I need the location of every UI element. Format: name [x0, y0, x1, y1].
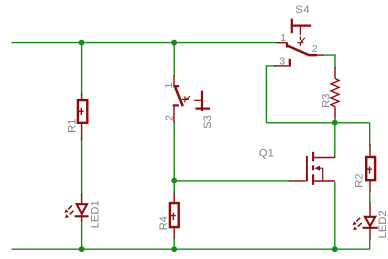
- junction node bottom-middle: [171, 246, 177, 252]
- resistor R1: [67, 94, 88, 139]
- svg-text:R3: R3: [321, 94, 333, 108]
- wire R1 to LED1: [81, 139, 83, 194]
- svg-text:LED2: LED2: [377, 210, 388, 238]
- junction node middle net: [332, 120, 338, 126]
- resistor R2: [354, 145, 376, 191]
- svg-text:1: 1: [280, 32, 286, 44]
- pin-net transition dots: [81, 42, 371, 239]
- wire S3 to R4: [173, 122, 175, 192]
- junction node bottom-right: [332, 246, 338, 252]
- svg-text:R1: R1: [67, 119, 79, 133]
- wire R1 column top: [81, 43, 83, 95]
- svg-text:1: 1: [163, 83, 175, 89]
- svg-text:S3: S3: [202, 115, 214, 129]
- switch S4: [275, 4, 323, 68]
- wire gate net: [174, 180, 290, 182]
- wire R4 to bottom: [173, 238, 175, 249]
- wire R3 to Q1 drain: [334, 123, 336, 157]
- LED LED1: [64, 194, 101, 228]
- wire bottom net: [12, 248, 370, 250]
- LED LED2: [353, 203, 388, 239]
- junction node gate tee: [171, 178, 177, 184]
- switch S3: [163, 76, 214, 129]
- wire middle net horizontal: [266, 122, 369, 124]
- junction node bottom-left: [79, 246, 85, 252]
- resistor R3: [321, 67, 339, 119]
- wire R2 to LED2: [369, 191, 371, 203]
- wire middle to R2: [369, 123, 371, 145]
- wire Q1 source to bottom: [334, 182, 336, 249]
- svg-text:3: 3: [279, 55, 285, 67]
- svg-text:2: 2: [312, 43, 318, 55]
- svg-text:R4: R4: [158, 216, 170, 230]
- wire S3 column top: [173, 43, 175, 76]
- resistor R4: [158, 192, 179, 238]
- wire LED2 to bottom: [369, 239, 371, 250]
- svg-text:Q1: Q1: [259, 147, 274, 159]
- svg-text:S4: S4: [295, 4, 310, 16]
- svg-text:2: 2: [164, 115, 176, 121]
- transistor Q1: [259, 147, 335, 185]
- junction node top-left: [79, 40, 85, 46]
- svg-text:R2: R2: [354, 173, 366, 187]
- svg-text:LED1: LED1: [89, 200, 101, 228]
- junction node top-middle: [171, 40, 177, 46]
- wire top net: [12, 42, 278, 44]
- wire LED1 to bottom: [81, 221, 83, 249]
- wire S4 pin2 to R3: [323, 55, 335, 67]
- wire S4 pin3 down: [266, 66, 275, 123]
